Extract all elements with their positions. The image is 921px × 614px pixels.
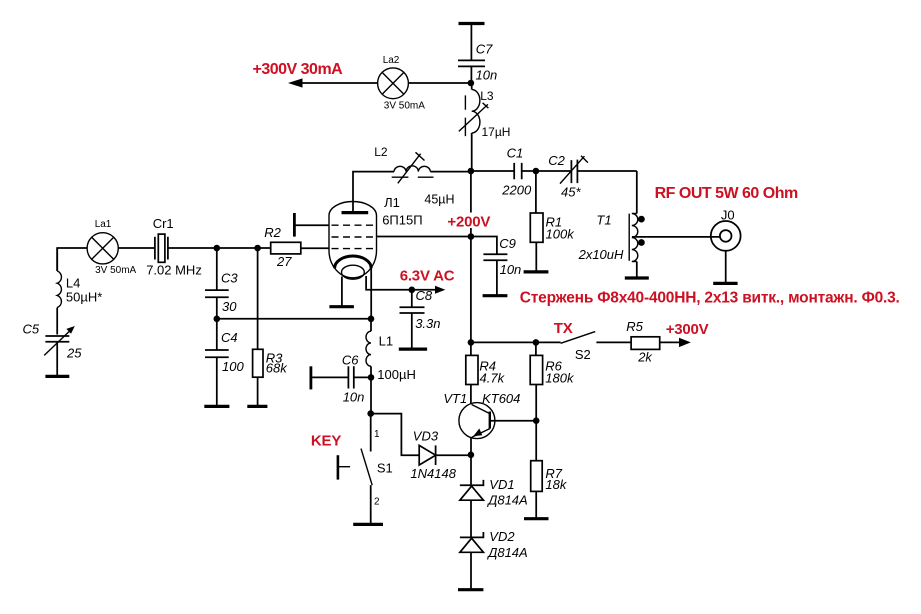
arrow 6.3V bbox=[435, 286, 445, 294]
svg-text:La2: La2 bbox=[383, 55, 400, 66]
svg-text:17µH: 17µH bbox=[482, 125, 511, 139]
svg-text:R5: R5 bbox=[626, 319, 643, 334]
svg-text:6.3V AC: 6.3V AC bbox=[400, 267, 455, 284]
svg-text:C9: C9 bbox=[499, 236, 516, 251]
wire key node to VD3 bbox=[371, 414, 420, 456]
junction TX/R4 node bbox=[468, 339, 475, 346]
svg-text:+300V 30mA: +300V 30mA bbox=[253, 61, 344, 78]
svg-text:1: 1 bbox=[374, 429, 380, 440]
svg-text:C1: C1 bbox=[507, 146, 524, 161]
capacitor C4 100 bbox=[205, 319, 244, 406]
capacitor C7 10n bbox=[458, 24, 497, 84]
svg-text:C5: C5 bbox=[23, 322, 40, 337]
junction emitter/VD1 node bbox=[468, 452, 475, 459]
svg-text:10n: 10n bbox=[343, 390, 365, 405]
svg-text:L2: L2 bbox=[374, 145, 388, 159]
svg-text:7.02 MHz: 7.02 MHz bbox=[146, 262, 202, 277]
wire heater to ground bbox=[341, 277, 343, 307]
svg-text:4.7k: 4.7k bbox=[480, 371, 506, 386]
svg-text:C2: C2 bbox=[548, 153, 565, 168]
label +200V bbox=[446, 213, 495, 231]
capacitor C5 25 variable bbox=[23, 322, 83, 376]
wire C6 node to key node bbox=[370, 377, 372, 413]
wire R5 to +300V bbox=[660, 341, 680, 343]
wire C2 to T1 bbox=[636, 171, 638, 214]
svg-text:C3: C3 bbox=[221, 270, 238, 285]
svg-text:S1: S1 bbox=[377, 461, 393, 476]
svg-text:La1: La1 bbox=[95, 219, 112, 230]
svg-text:3.3n: 3.3n bbox=[415, 316, 440, 331]
switch S1 bbox=[338, 414, 393, 524]
svg-text:+200V: +200V bbox=[447, 213, 490, 230]
wire TX bus bbox=[471, 341, 561, 343]
svg-text:C6: C6 bbox=[342, 353, 359, 368]
svg-text:50µH*: 50µH* bbox=[66, 290, 102, 305]
junction base/R6/R7 node bbox=[533, 417, 540, 424]
wire S2 to R5 bbox=[596, 341, 631, 343]
resistor R7 18k bbox=[531, 421, 568, 519]
tube U1 (6П15П) bbox=[329, 195, 423, 279]
arrow +300V feed bbox=[288, 78, 378, 87]
junction C8 node bbox=[409, 287, 416, 294]
diode VD3 1N4148 bbox=[410, 429, 471, 482]
svg-text:18k: 18k bbox=[545, 477, 567, 492]
junction key node bbox=[367, 410, 374, 417]
svg-text:100µH: 100µH bbox=[377, 367, 416, 382]
svg-text:1N4148: 1N4148 bbox=[410, 466, 456, 481]
lamp La1 bbox=[87, 219, 136, 276]
resistor R5 2k bbox=[626, 319, 659, 364]
wire node to R3 node bbox=[217, 247, 258, 249]
svg-text:2: 2 bbox=[374, 496, 380, 507]
svg-text:Стержень Ф8х40-400НН, 2х13 вит: Стержень Ф8х40-400НН, 2х13 витк., монтаж… bbox=[520, 290, 900, 307]
svg-text:3V 50mA: 3V 50mA bbox=[95, 265, 136, 276]
ground under R3 bbox=[247, 405, 267, 408]
junction anode node bbox=[468, 168, 475, 175]
svg-text:VD2: VD2 bbox=[489, 529, 515, 544]
wire heater to 6.3V bbox=[366, 276, 435, 290]
svg-text:VT1: VT1 bbox=[443, 391, 467, 406]
switch S2 bbox=[561, 332, 596, 362]
ground under C5 bbox=[45, 375, 69, 378]
svg-text:2k: 2k bbox=[637, 349, 653, 364]
svg-text:68k: 68k bbox=[266, 361, 288, 376]
wire T1 bottom lead bbox=[636, 262, 638, 278]
junction R2/R3 node bbox=[254, 245, 261, 252]
svg-text:2x10uH: 2x10uH bbox=[578, 247, 624, 262]
svg-text:180k: 180k bbox=[545, 371, 575, 386]
svg-text:C8: C8 bbox=[416, 288, 433, 303]
wire screen grid to +200V node bbox=[377, 236, 471, 238]
inductor L2 45uH bbox=[374, 145, 454, 206]
junction +200V node bbox=[468, 233, 475, 240]
capacitor C1 2200 bbox=[471, 146, 536, 198]
zener VD2 Д814А bbox=[460, 529, 528, 589]
wire J0 to ground bbox=[725, 251, 727, 283]
svg-text:R2: R2 bbox=[264, 225, 281, 240]
ground heater bbox=[329, 305, 354, 308]
svg-text:10n: 10n bbox=[476, 68, 498, 83]
zener VD1 Д814А bbox=[460, 455, 528, 538]
svg-text:3V 50mA: 3V 50mA bbox=[384, 101, 425, 112]
ground under S1 bbox=[353, 523, 383, 526]
svg-text:Д814А: Д814А bbox=[486, 493, 528, 508]
ground under C4 bbox=[204, 405, 229, 408]
svg-text:L3: L3 bbox=[480, 89, 494, 103]
ground top terminal bbox=[459, 22, 485, 25]
ground under T1 bbox=[625, 276, 649, 279]
wire input corner bbox=[57, 248, 87, 271]
arrow +300V bbox=[679, 338, 691, 347]
svg-text:L4: L4 bbox=[66, 276, 80, 291]
svg-text:J0: J0 bbox=[721, 207, 735, 222]
ground under VD2 bbox=[458, 588, 483, 591]
junction C1/R1/C2 node bbox=[533, 168, 540, 175]
resistor R2 27 bbox=[258, 225, 329, 269]
svg-text:Cr1: Cr1 bbox=[153, 216, 174, 231]
wire anode to L2 bbox=[353, 172, 394, 212]
transistor VT1 KT604 bbox=[443, 391, 536, 455]
inductor L4 50uH bbox=[57, 248, 102, 335]
svg-text:+300V: +300V bbox=[666, 321, 709, 338]
capacitor C3 30 bbox=[205, 248, 238, 319]
svg-text:10n: 10n bbox=[500, 262, 522, 277]
svg-text:TX: TX bbox=[554, 320, 573, 337]
wire La2 to anode supply node bbox=[408, 82, 471, 84]
svg-text:6П15П: 6П15П bbox=[382, 212, 422, 227]
svg-text:T1: T1 bbox=[596, 213, 611, 228]
svg-text:Л1: Л1 bbox=[384, 195, 400, 210]
crystal Cr1 7.02MHz bbox=[146, 216, 202, 277]
junction cathode/L1 node bbox=[368, 316, 375, 323]
svg-text:VD3: VD3 bbox=[413, 429, 439, 444]
wire cathode down bbox=[370, 268, 372, 319]
ground under C9 bbox=[483, 294, 508, 297]
ground under C8 bbox=[399, 348, 427, 351]
inductor L1 100uH bbox=[366, 319, 416, 382]
capacitor C9 10n bbox=[471, 236, 521, 295]
resistor R4 4.7k bbox=[466, 342, 506, 403]
svg-text:25: 25 bbox=[66, 346, 82, 361]
svg-text:KT604: KT604 bbox=[482, 391, 520, 406]
svg-text:2200: 2200 bbox=[501, 183, 532, 198]
junction supply node bbox=[468, 80, 475, 87]
wire L2 to anode node bbox=[430, 171, 471, 173]
capacitor C8 3.3n bbox=[400, 288, 441, 349]
resistor R1 100k bbox=[530, 171, 575, 271]
svg-text:RF OUT 5W 60 Ohm: RF OUT 5W 60 Ohm bbox=[655, 185, 798, 202]
resistor R6 180k bbox=[530, 342, 575, 420]
capacitor C2 45* variable bbox=[536, 153, 637, 199]
svg-text:45*: 45* bbox=[561, 184, 581, 199]
svg-text:C4: C4 bbox=[221, 330, 238, 345]
lamp La2 bbox=[378, 55, 426, 111]
junction crystal/C3 node bbox=[214, 245, 221, 252]
junction L1/C6 node bbox=[368, 374, 375, 381]
wire anode node down to +200V node bbox=[470, 171, 472, 237]
junction R6 top node bbox=[533, 339, 540, 346]
wire cathode bus to C3/C4 node bbox=[217, 318, 371, 320]
ground under R7 bbox=[524, 517, 549, 520]
svg-text:L1: L1 bbox=[379, 334, 393, 349]
junction C3/C4 node bbox=[214, 316, 221, 323]
capacitor C6 10n bbox=[311, 353, 371, 405]
ground under J0 bbox=[713, 282, 737, 285]
wire +200V node down to TX node bbox=[470, 237, 472, 343]
svg-text:100k: 100k bbox=[546, 226, 576, 241]
wire T1 tap to J0 bbox=[632, 236, 720, 238]
wire Cr1 to node bbox=[168, 247, 217, 249]
svg-text:C7: C7 bbox=[476, 42, 493, 57]
wire La1 to Cr1 bbox=[118, 247, 155, 249]
connector J0 bbox=[711, 207, 741, 251]
svg-text:45µH: 45µH bbox=[424, 192, 454, 206]
svg-text:30: 30 bbox=[222, 299, 237, 314]
inductor L3 17uH bbox=[459, 83, 511, 171]
ground under R1 bbox=[524, 270, 549, 273]
svg-text:Д814А: Д814А bbox=[486, 545, 528, 560]
resistor R3 68k bbox=[253, 248, 289, 406]
svg-text:KEY: KEY bbox=[311, 432, 341, 449]
ground g3 bar bbox=[294, 213, 329, 237]
svg-text:VD1: VD1 bbox=[489, 477, 514, 492]
svg-text:100: 100 bbox=[222, 359, 244, 374]
svg-text:27: 27 bbox=[276, 254, 292, 269]
transformer T1 2x10uH bbox=[578, 213, 645, 262]
svg-text:S2: S2 bbox=[575, 347, 591, 362]
